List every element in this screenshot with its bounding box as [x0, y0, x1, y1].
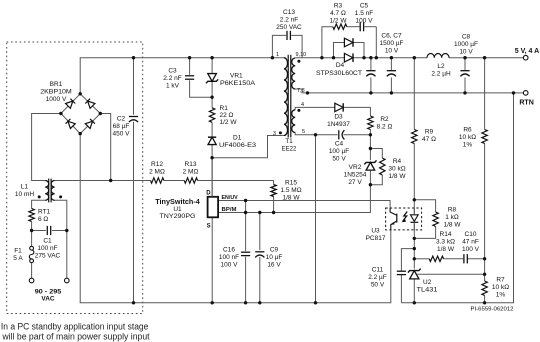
svg-text:1/8 W: 1/8 W: [389, 173, 407, 180]
svg-text:U3: U3: [371, 227, 380, 234]
svg-text:50 V: 50 V: [371, 282, 385, 289]
junction dots on EN/UV and BP/M lines: [244, 199, 247, 202]
junction dots on 5V rail: [320, 56, 323, 59]
svg-text:3.3 kΩ: 3.3 kΩ: [436, 239, 455, 246]
svg-text:1/8 W: 1/8 W: [444, 222, 462, 229]
capacitor C2: [113, 116, 139, 138]
svg-text:C1: C1: [43, 238, 52, 245]
resistor R1: [209, 105, 237, 126]
svg-text:30 kΩ: 30 kΩ: [388, 166, 405, 173]
wire L1 bottom left leg to RT1/C1/F1/terminal: [32, 200, 46, 208]
svg-text:EN/UV: EN/UV: [222, 195, 239, 201]
svg-text:C9: C9: [270, 247, 279, 254]
wire R9 feedback branch from 5V rail: [413, 58, 415, 130]
svg-text:4: 4: [301, 102, 304, 108]
svg-text:VR1: VR1: [230, 73, 243, 80]
svg-text:1%: 1%: [496, 292, 506, 299]
svg-text:C2: C2: [117, 116, 126, 123]
svg-text:1500 µF: 1500 µF: [380, 40, 404, 47]
svg-text:C5: C5: [360, 3, 369, 10]
junction dots on RTN rail: [306, 91, 309, 94]
svg-text:27 V: 27 V: [348, 179, 362, 186]
svg-text:100 V: 100 V: [221, 262, 239, 269]
svg-text:1.5 nF: 1.5 nF: [355, 10, 373, 17]
svg-text:1/8 W: 1/8 W: [283, 195, 301, 202]
svg-text:VR2: VR2: [349, 164, 362, 171]
capacitor C13: [276, 9, 302, 40]
wire R2 bottom to C4 node: [369, 130, 371, 135]
dashed box: PC standby input stage: [7, 42, 143, 314]
svg-text:10 µF: 10 µF: [266, 254, 283, 261]
resistor R15: [271, 180, 302, 202]
wire BP/M line to bias feed: [218, 185, 370, 213]
wire C1 branch: [32, 230, 46, 232]
resistor R3: [330, 3, 348, 30]
junction dots on HV+ rail: [132, 56, 135, 59]
resistor R7: [482, 277, 509, 299]
svg-text:R14: R14: [440, 231, 452, 238]
wire R7 to secondary ground: [484, 274, 486, 281]
wire C16 branch: [245, 201, 247, 252]
svg-text:3: 3: [273, 131, 276, 137]
wire R15 vertical leg to BP/M line: [273, 181, 275, 185]
shunt regulator U2 TL431: [408, 269, 438, 294]
svg-text:F1: F1: [14, 248, 22, 255]
svg-text:R7: R7: [496, 277, 505, 284]
svg-text:R2: R2: [380, 116, 389, 123]
svg-text:PI-6559-062012: PI-6559-062012: [471, 307, 514, 313]
AC input terminals 90-295 VAC: [29, 278, 69, 303]
svg-text:250 VAC: 250 VAC: [276, 24, 302, 31]
resistor R8: [433, 207, 461, 229]
svg-text:10 V: 10 V: [385, 48, 399, 55]
svg-text:10 mH: 10 mH: [15, 191, 34, 198]
svg-text:100 nF: 100 nF: [37, 245, 57, 252]
wire VR1/R1/D1 clamp branch: [211, 58, 213, 74]
wire D4 second diode branch: [334, 43, 345, 58]
svg-text:UF4006-E3: UF4006-E3: [219, 142, 256, 149]
svg-text:275 VAC: 275 VAC: [35, 253, 61, 260]
junction dot bridge right to sense line: [109, 179, 112, 182]
svg-text:1N5254: 1N5254: [344, 172, 367, 179]
junction dots bias supply nodes: [314, 133, 317, 136]
junction dots on C1 node: [30, 229, 33, 232]
wire line-sense rail (L1 to R12/R13/R15): [55, 180, 151, 182]
inductor L2: [427, 54, 451, 78]
svg-text:5 V, 4 A: 5 V, 4 A: [515, 48, 539, 55]
thermistor RT1: [29, 209, 51, 224]
wire C8 branch: [464, 58, 466, 70]
svg-text:5 A: 5 A: [13, 255, 23, 262]
svg-text:L2: L2: [437, 63, 445, 70]
junction dot clamp node: [210, 96, 213, 99]
capacitor C3: [163, 68, 194, 90]
resistor R9: [412, 129, 436, 144]
bridge rectifier BR1 2KBP10M: [40, 81, 100, 134]
svg-text:D: D: [206, 190, 211, 196]
svg-text:100 nF: 100 nF: [219, 254, 239, 261]
wire C6 branch: [370, 58, 372, 70]
svg-text:16 V: 16 V: [267, 262, 281, 269]
svg-text:47 nF: 47 nF: [462, 239, 479, 246]
svg-text:5: 5: [302, 129, 305, 135]
svg-text:1 kΩ: 1 kΩ: [445, 214, 459, 221]
svg-text:450 V: 450 V: [113, 131, 131, 138]
svg-text:C3: C3: [168, 68, 177, 75]
svg-text:L1: L1: [21, 184, 29, 191]
dual diode D4 STPS30L60CT: [316, 38, 362, 77]
capacitor C8: [454, 34, 478, 77]
svg-text:R9: R9: [425, 129, 434, 136]
svg-text:1/8 W: 1/8 W: [437, 246, 455, 253]
svg-text:100 µF: 100 µF: [329, 148, 349, 155]
svg-text:R12: R12: [151, 161, 163, 168]
svg-text:2 MΩ: 2 MΩ: [149, 169, 165, 176]
svg-text:2 MΩ: 2 MΩ: [183, 169, 199, 176]
junction dots on feedback chain: [413, 198, 416, 201]
capacitor C1: [35, 226, 61, 260]
svg-text:BR1: BR1: [50, 81, 63, 88]
svg-text:C8: C8: [462, 34, 471, 41]
wire bridge left AC leg to L1: [32, 114, 61, 181]
svg-text:T1: T1: [285, 138, 293, 145]
output terminal 5V 4A: [515, 48, 539, 60]
wire U1 source pin to ground rail: [211, 217, 213, 302]
wire bias return to ground rail: [315, 135, 317, 303]
wire secondary 5V rail: [295, 57, 344, 59]
resistor R6: [459, 127, 487, 149]
wire T1 pin 4 to D3: [295, 107, 334, 109]
wire bridge negative leg and primary ground rail: [80, 134, 391, 303]
svg-text:P6KE150A: P6KE150A: [220, 80, 256, 87]
svg-text:EE22: EE22: [282, 147, 297, 153]
T1 polarity dots: [279, 131, 282, 134]
wire opto LED cathode to TL431: [413, 223, 415, 268]
svg-text:2.2 nF: 2.2 nF: [163, 75, 181, 82]
capacitor C11: [368, 267, 406, 289]
svg-text:90 - 295: 90 - 295: [35, 289, 62, 296]
wire R3 C5 snubber branch: [322, 27, 333, 58]
svg-text:7,8: 7,8: [297, 88, 305, 94]
wire R14 C10 compensation branch: [414, 258, 429, 260]
TVS VR1 P6KE150A: [206, 73, 256, 88]
svg-text:10 V: 10 V: [459, 49, 473, 56]
wire C3 branch: [189, 58, 191, 75]
svg-text:D3: D3: [334, 114, 343, 121]
wire drain node to T1 pin 3: [212, 136, 284, 158]
svg-text:R13: R13: [185, 161, 197, 168]
svg-text:VAC: VAC: [41, 296, 55, 303]
capacitor C16: [219, 247, 250, 269]
svg-text:9,10: 9,10: [296, 52, 307, 58]
svg-text:D1: D1: [233, 135, 242, 142]
svg-text:C16: C16: [223, 247, 235, 254]
svg-text:2KBP10M: 2KBP10M: [40, 89, 72, 96]
svg-text:68 µF: 68 µF: [113, 123, 130, 130]
svg-text:will be part of main power sup: will be part of main power supply input: [1, 332, 150, 342]
svg-text:R4: R4: [393, 158, 402, 165]
optocoupler U3 PC817: [366, 208, 422, 242]
capacitors C6 C7: [366, 33, 403, 77]
svg-text:100 V: 100 V: [356, 18, 374, 25]
diode D1 UF4006-E3: [208, 135, 256, 150]
resistor R2: [368, 116, 393, 131]
resistor R12: [149, 161, 165, 183]
svg-text:TinySwitch-4: TinySwitch-4: [155, 199, 200, 206]
svg-text:10 kΩ: 10 kΩ: [459, 134, 476, 141]
svg-text:TL431: TL431: [417, 286, 438, 293]
svg-text:2.2 µH: 2.2 µH: [431, 71, 451, 78]
svg-text:1N4937: 1N4937: [327, 121, 350, 128]
svg-text:1 kV: 1 kV: [166, 83, 180, 90]
svg-text:C11: C11: [372, 267, 384, 274]
capacitor C10: [462, 231, 480, 263]
svg-text:R1: R1: [220, 105, 229, 112]
svg-text:22 Ω: 22 Ω: [220, 112, 234, 119]
svg-text:U2: U2: [423, 279, 432, 286]
junction dot drain node: [210, 156, 213, 159]
svg-text:6 Ω: 6 Ω: [38, 216, 48, 223]
svg-text:D4: D4: [336, 62, 345, 69]
svg-text:4.7 Ω: 4.7 Ω: [330, 10, 346, 17]
junction dots on bridge nodes: [79, 92, 82, 95]
svg-text:1.5 MΩ: 1.5 MΩ: [280, 187, 301, 194]
svg-text:1: 1: [276, 52, 279, 58]
svg-text:PC817: PC817: [366, 235, 386, 242]
svg-text:S: S: [207, 224, 211, 230]
wire C13 branch: [272, 35, 286, 57]
svg-text:8.2 Ω: 8.2 Ω: [377, 124, 393, 131]
wire L1 bottom right leg to terminal: [55, 200, 67, 278]
L1 polarity dots: [38, 195, 41, 198]
wire T1 pin 7,8 to RTN rail: [295, 89, 523, 93]
wire C11 branch: [401, 249, 414, 271]
wire C7 branch: [390, 58, 392, 70]
svg-text:1000 V: 1000 V: [46, 96, 67, 103]
svg-text:TNY290PG: TNY290PG: [160, 213, 196, 220]
wire D3 cathode to R2: [343, 107, 370, 116]
svg-text:47 Ω: 47 Ω: [422, 136, 436, 143]
svg-text:R8: R8: [448, 207, 457, 214]
wire bridge right AC leg down to sense line: [100, 114, 110, 181]
wire R4 branch: [370, 149, 382, 159]
svg-text:U1: U1: [173, 206, 182, 213]
svg-text:2.2 nF: 2.2 nF: [280, 17, 298, 24]
svg-text:1%: 1%: [463, 142, 473, 149]
zener VR2 1N5254: [344, 160, 377, 186]
svg-text:R6: R6: [463, 127, 472, 134]
svg-text:100 V: 100 V: [462, 246, 480, 253]
wire VR2 branch: [369, 135, 371, 160]
svg-text:1/2 W: 1/2 W: [220, 119, 238, 126]
wire EN/UV line to optocoupler collector: [218, 201, 390, 209]
wire R6 divider branch from 5V rail: [484, 58, 486, 130]
fuse F1: [13, 246, 34, 262]
svg-text:C10: C10: [465, 231, 477, 238]
svg-text:RT1: RT1: [38, 209, 51, 216]
svg-text:2.2 µF: 2.2 µF: [368, 274, 387, 281]
capacitor C5: [355, 3, 373, 32]
svg-text:In a PC standby application in: In a PC standby application input stage: [1, 322, 149, 332]
junction dots on reference divider node: [483, 257, 486, 260]
wire C2 branch: [133, 58, 135, 115]
output terminal RTN: [519, 91, 534, 107]
svg-text:C4: C4: [335, 141, 344, 148]
svg-text:BP/M: BP/M: [222, 207, 238, 213]
svg-text:1/2 W: 1/2 W: [330, 18, 348, 25]
wire secondary ground rail to RTN: [401, 93, 513, 303]
svg-text:1000 µF: 1000 µF: [454, 41, 478, 48]
svg-text:50 V: 50 V: [332, 156, 346, 163]
svg-text:C13: C13: [283, 9, 295, 16]
wire T1 pin 5 line with C4: [295, 133, 337, 135]
common mode choke L1: [15, 179, 55, 203]
wire C9 branch: [259, 213, 261, 251]
resistor R14: [429, 231, 455, 262]
capacitor C4: [329, 130, 349, 162]
resistor R13: [183, 161, 199, 183]
TinySwitch-4 U1 TNY290PG: [155, 158, 218, 230]
wire TL431 reference line: [417, 273, 484, 275]
capacitor C9: [255, 247, 282, 269]
junction dots on primary ground rail: [132, 301, 135, 304]
transformer T1 EE22: [282, 55, 297, 153]
svg-text:C6, C7: C6, C7: [381, 33, 402, 40]
svg-text:R3: R3: [334, 3, 343, 10]
diode D3 1N4937: [327, 103, 350, 128]
svg-text:R15: R15: [285, 180, 297, 187]
resistor R4: [380, 158, 407, 180]
svg-text:10 kΩ: 10 kΩ: [492, 284, 509, 291]
wire R8 parallel branch: [414, 200, 435, 212]
wire HV+ rail (bridge top to T1 pin 1): [80, 58, 284, 96]
svg-text:STPS30L60CT: STPS30L60CT: [316, 70, 362, 77]
svg-text:RTN: RTN: [519, 99, 534, 106]
